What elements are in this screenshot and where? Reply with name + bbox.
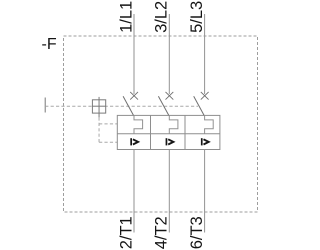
svg-text:6/T3: 6/T3 xyxy=(188,216,206,249)
svg-text:4/T2: 4/T2 xyxy=(153,216,171,249)
svg-text:3/L2: 3/L2 xyxy=(153,1,171,33)
svg-text:2/T1: 2/T1 xyxy=(117,216,135,249)
svg-text:5/L3: 5/L3 xyxy=(188,1,206,33)
svg-text:1/L1: 1/L1 xyxy=(117,1,135,33)
svg-text:-F: -F xyxy=(42,36,57,53)
